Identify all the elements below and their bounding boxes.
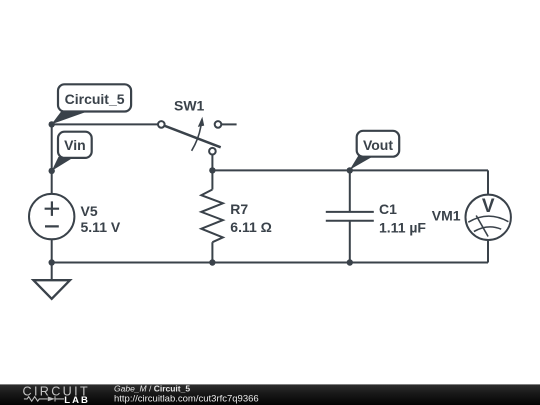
junction dot Vout node at C1 top [347,167,353,173]
svg-text:C1: C1 [379,201,397,217]
wire R7 bottom to bottom net [211,242,213,262]
footer title Gabe_M / Circuit_5 [114,383,190,393]
label SW1 [174,98,205,114]
svg-text:Vin: Vin [64,137,86,153]
junction dot V5/ground/bottom net [49,259,55,265]
footer logo CIRCUIT [23,384,91,398]
svg-text:5.11 V: 5.11 V [81,219,121,235]
callout Vout [350,131,400,170]
node Vin dot [49,168,55,174]
footer logo LAB [64,395,90,405]
capacitor C1 [326,212,374,221]
label C1 [379,201,397,217]
wire cap C1 top lead [349,170,351,212]
voltmeter VM1 [466,170,511,262]
node A dot (Circuit_5 net) [49,121,55,127]
svg-text:SW1: SW1 [174,98,205,114]
junction dot R7 bottom [209,259,215,265]
svg-text:1.11 µF: 1.11 µF [379,219,426,235]
callout Vin [52,132,92,171]
wire top net from node A to SW1 left terminal [52,123,158,125]
svg-text:6.11 Ω: 6.11 Ω [230,219,272,235]
voltage source V5 [29,194,74,239]
wire mid horizontal Vout net [212,169,488,171]
wire cap C1 bottom lead [349,221,351,263]
svg-text:R7: R7 [230,201,248,217]
svg-text:V: V [482,196,495,217]
footer url [114,394,259,405]
ground [33,263,70,299]
svg-text:Vout: Vout [363,137,393,153]
resistor R7 [201,190,223,243]
svg-text:V5: V5 [81,203,98,219]
label VM1 [432,208,461,224]
callout Circuit_5 [52,84,132,124]
label V5 [81,203,98,219]
junction dot mid node at R7 top [209,167,215,173]
wire bottom net [52,262,488,264]
footer logo resistor-diode symbol [24,396,64,401]
switch SW1 [158,117,221,155]
svg-text:VM1: VM1 [432,208,461,224]
value 1.11 uF [379,219,426,235]
footer bar [0,384,540,405]
junction dot C1 bottom [347,259,353,265]
svg-text:Circuit_5: Circuit_5 [65,91,125,107]
wire left vertical from node A down to V5 top [51,124,53,193]
value 5.11 V [81,219,121,235]
wire SW1 bottom terminal to resistor R7 top [211,155,213,190]
svg-text:http://circuitlab.com/cut3rfc7: http://circuitlab.com/cut3rfc7q9366 [114,394,259,405]
label R7 [230,201,248,217]
wire SW1 right stub [222,123,237,125]
svg-text:LAB: LAB [64,395,90,405]
wire V5 bottom to ground junction [51,239,53,262]
value 6.11 ohm [230,219,272,235]
svg-text:Gabe_M / Circuit_5: Gabe_M / Circuit_5 [114,383,190,393]
